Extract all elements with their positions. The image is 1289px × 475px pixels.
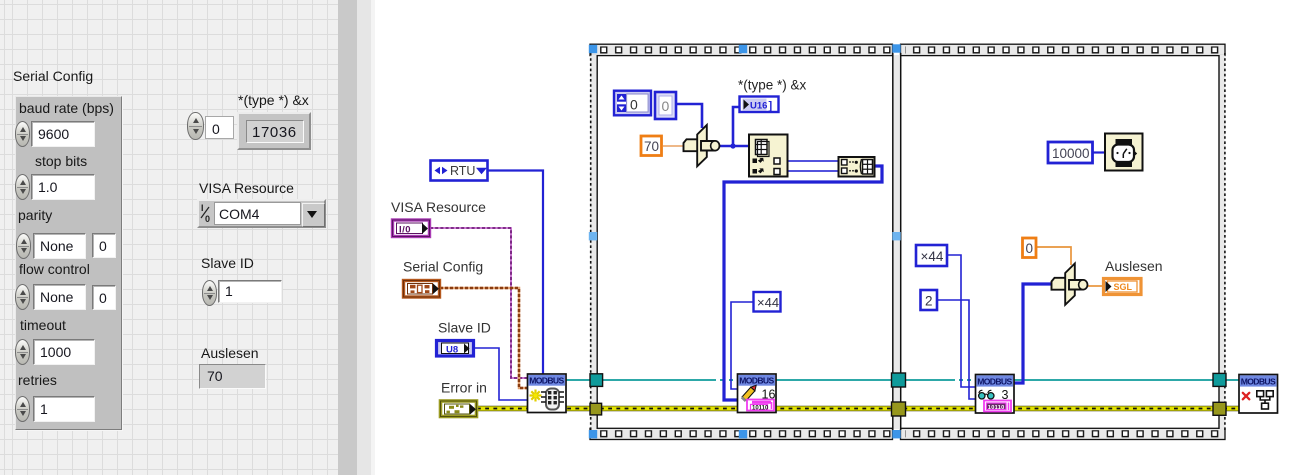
indicator Auslesen 70	[199, 364, 266, 389]
spin flow control	[15, 284, 30, 310]
tunnel error frame1 left	[590, 403, 602, 415]
spin parity	[16, 233, 31, 259]
svg-text:MODBUS: MODBUS	[529, 376, 564, 386]
window gap light strip	[371, 0, 375, 475]
svg-text:70: 70	[644, 139, 659, 154]
frame 2 sequence bottom strip	[901, 428, 1226, 439]
function build cluster array node	[839, 157, 875, 177]
selection handle top-mid	[739, 45, 747, 53]
tunnel error frame2 right	[1213, 402, 1226, 415]
junction node funnel1 output	[730, 143, 735, 148]
field timeout 1000	[33, 339, 95, 365]
wire x44 frame2 to MODBUS3	[948, 255, 976, 387]
selection handle bottom-mid	[739, 430, 747, 438]
combo dropdown triangle	[307, 211, 317, 218]
spin timeout	[15, 339, 30, 365]
wire 70 to funnel1 (orange)	[663, 145, 684, 147]
wire slave ID U8	[474, 348, 528, 400]
field baud 9600	[31, 121, 95, 147]
label baud rate (bps)	[19, 101, 114, 116]
spin stop bits	[15, 174, 30, 200]
wire 2 to MODBUS3	[937, 300, 976, 399]
svg-text:Serial Config: Serial Config	[403, 259, 483, 275]
label VISA Resource	[199, 181, 294, 196]
window gap strip	[357, 0, 371, 475]
label timeout	[20, 318, 66, 333]
front panel window (grid background)	[0, 0, 338, 475]
svg-text:0: 0	[662, 98, 670, 114]
combo I/O glyph	[198, 202, 214, 225]
svg-text:SGL: SGL	[1114, 282, 1133, 292]
block MODBUS read registers 3	[976, 375, 1015, 414]
frame 1 left border	[590, 53, 597, 430]
indicator 17036 raised frame	[237, 112, 311, 150]
tunnel teal frame2 right	[1213, 373, 1226, 386]
svg-text:Slave ID: Slave ID	[438, 320, 491, 336]
tunnel teal frames middle	[892, 373, 906, 387]
function Type Cast funnel F1	[684, 125, 720, 166]
block MODBUS write registers 16	[738, 374, 777, 413]
svg-text:U16: U16	[750, 101, 767, 112]
terminal Serial Config cluster	[404, 281, 440, 298]
constant 2	[921, 290, 938, 310]
spin retries	[15, 396, 30, 422]
wire error in (yellow/black dashed)	[477, 406, 1240, 411]
label retries	[18, 373, 57, 388]
combo dropdown button	[302, 203, 325, 227]
frame 1 sequence bottom strip	[590, 428, 893, 439]
frames middle shared border	[893, 53, 901, 430]
terminal VISA I/O	[393, 220, 430, 237]
svg-text:0: 0	[1026, 241, 1034, 256]
svg-text:0: 0	[630, 97, 638, 113]
label parity	[18, 208, 52, 223]
combo white area COM4	[214, 202, 301, 225]
selection handle left-mid	[589, 232, 597, 240]
frame 1 sequence top strip	[590, 44, 893, 55]
wire funnel1 out to bundle box	[719, 145, 749, 148]
svg-text:Error in: Error in	[441, 380, 487, 396]
terminal Error in cluster	[441, 401, 477, 417]
label Auslesen	[201, 346, 259, 361]
indicator terminal U16	[740, 97, 779, 113]
enum constant RTU	[431, 161, 488, 181]
wire modbus master (teal)	[565, 377, 1240, 383]
label stop bits	[35, 154, 87, 169]
svg-text:MODBUS: MODBUS	[977, 376, 1012, 386]
wire array loop to MODBUS16 data input	[724, 166, 882, 400]
label *(type *) &x	[238, 93, 309, 108]
wire 0 to funnel2 type (orange)	[1035, 247, 1071, 265]
svg-text:×44: ×44	[757, 295, 779, 310]
numeric control 0 (type input)	[614, 91, 651, 116]
wire branch up to U16 terminal	[733, 107, 739, 146]
field retries 1	[33, 396, 95, 422]
function Wait (ms) timer	[1105, 134, 1143, 171]
field type 0	[205, 116, 234, 139]
block MODBUS close	[1239, 375, 1278, 414]
wire RTU enum to create block	[488, 171, 543, 376]
tunnel error frames middle	[892, 402, 906, 416]
indicator 17036 value	[246, 120, 304, 143]
terminal Slave ID U8	[437, 341, 474, 357]
label Serial Config	[13, 69, 93, 84]
field parity digital 0	[92, 233, 116, 258]
wire MODBUS3 register array to funnel2	[1013, 284, 1053, 383]
svg-text:U8: U8	[446, 345, 458, 356]
spin baud	[15, 121, 30, 147]
selection handle right-mid	[892, 232, 900, 240]
wire 10000 to wait icon	[1092, 151, 1105, 153]
field Slave ID 1	[218, 280, 282, 303]
wire bundle to build-array lower	[787, 170, 838, 172]
frame 2 right border	[1219, 53, 1226, 430]
selection handle top-left	[589, 45, 597, 53]
selection handle bottom-right	[892, 430, 900, 438]
constant x44 frame2	[916, 245, 947, 266]
block MODBUS create U1	[528, 374, 567, 413]
constant 70 (orange)	[641, 136, 662, 156]
function bundle/index node	[749, 135, 788, 177]
field stop bits 1.0	[31, 174, 95, 200]
svg-text:*(type *) &x: *(type *) &x	[738, 78, 807, 93]
svg-text:10110: 10110	[752, 406, 769, 412]
wire type constant to funnel1	[676, 104, 702, 128]
label Slave ID	[201, 256, 254, 271]
svg-text:]: ]	[769, 100, 773, 112]
svg-text:×44: ×44	[921, 249, 944, 264]
field parity None	[33, 233, 86, 259]
constant 10000	[1048, 142, 1093, 163]
spin type	[187, 112, 204, 140]
selection handle top-right	[892, 44, 900, 52]
svg-text:RTU: RTU	[450, 164, 475, 178]
function Type Cast funnel F2	[1052, 264, 1088, 305]
selection handle bottom-left	[589, 430, 597, 438]
wire serial config cluster (brown dashed)	[440, 288, 528, 388]
wire VISA resource (purple dashed)	[430, 228, 528, 378]
svg-text:I: I	[201, 203, 204, 213]
field flow control None	[33, 284, 86, 310]
svg-text:10000: 10000	[1052, 146, 1090, 161]
svg-text:I/0: I/0	[399, 225, 411, 236]
svg-text:VISA Resource: VISA Resource	[391, 199, 486, 215]
svg-text:0: 0	[205, 214, 210, 224]
spin Slave ID	[202, 280, 217, 306]
label flow control	[19, 262, 90, 277]
wire x44 frame1 to MODBUS16	[731, 302, 753, 389]
constant 0 (orange, frame2)	[1023, 238, 1037, 258]
wire funnel2 to SGL indicator (orange)	[1088, 285, 1103, 287]
front panel scrollbar strip	[338, 0, 357, 475]
wire bundle to build-array upper	[787, 160, 838, 162]
svg-text:10110: 10110	[988, 405, 1005, 411]
svg-text:MODBUS: MODBUS	[1241, 376, 1276, 386]
block diagram window	[375, 0, 1289, 475]
frame 2 sequence top strip	[901, 44, 1226, 55]
svg-text:2: 2	[925, 294, 933, 309]
field flow control digital 0	[92, 285, 116, 310]
numeric constant 0 (selected)	[655, 92, 676, 119]
indicator terminal SGL Auslesen	[1104, 279, 1142, 295]
svg-text:MODBUS: MODBUS	[739, 376, 774, 386]
tunnel teal frame1 left	[590, 374, 603, 387]
constant x44 frame1	[754, 292, 781, 312]
cluster panel	[15, 96, 122, 430]
svg-text:Auslesen: Auslesen	[1105, 258, 1163, 274]
combo VISA COM4	[197, 199, 326, 228]
